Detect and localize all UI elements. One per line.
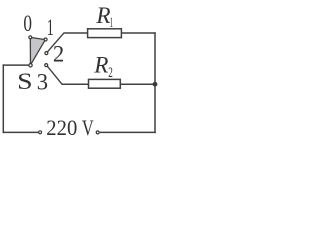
wire: R2 branch horizontal (62, 83, 155, 85)
wire: right vertical (154, 32, 156, 133)
svg-text:0: 0 (23, 11, 32, 36)
svg-text:1: 1 (47, 15, 54, 40)
switch pivot circle (29, 64, 32, 67)
svg-text:2: 2 (53, 41, 64, 66)
resistor R2 (89, 79, 121, 88)
switch contact 0 circle (29, 36, 32, 39)
switch contact 1 circle (44, 38, 47, 41)
svg-text:220: 220 (46, 115, 77, 140)
svg-text:V: V (82, 115, 94, 140)
svg-text:1: 1 (110, 15, 113, 31)
wire: bottom right segment (100, 131, 156, 133)
wire: diagonal from contact 2 to R1 branch (46, 33, 63, 53)
switch contact 2 circle (45, 52, 48, 55)
svg-text:R: R (93, 52, 108, 78)
wire: diagonal from contact 3 to R2 branch (46, 65, 62, 84)
wire: left vertical (2, 64, 4, 133)
svg-text:3: 3 (37, 70, 48, 95)
terminal circle right of 220 V (96, 131, 99, 134)
switch contact 3 circle (45, 64, 48, 67)
junction dot at right vertical and R2 branch (153, 82, 158, 87)
wire: bottom left segment (3, 131, 39, 133)
wire: feed horizontal to switch pivot (3, 64, 29, 66)
switch S: knob wedge (30, 37, 45, 65)
svg-text:R: R (95, 3, 110, 29)
wire: top horizontal (R1 branch) (63, 32, 155, 34)
svg-text:2: 2 (108, 65, 113, 81)
resistor R1 (88, 29, 122, 38)
terminal circle left of 220 V (39, 131, 42, 134)
svg-text:S: S (17, 69, 33, 94)
